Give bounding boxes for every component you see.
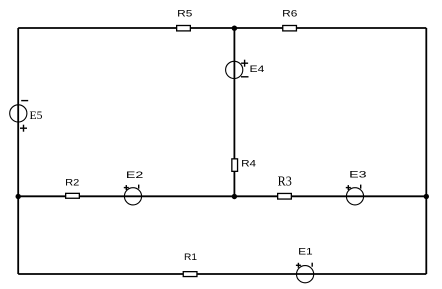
svg-text:R4: R4: [241, 159, 256, 170]
svg-text:R5: R5: [177, 9, 192, 20]
wire bottom: [18, 273, 426, 275]
resistor R2: [65, 178, 79, 199]
svg-text:R1: R1: [184, 252, 197, 263]
resistor R5: [177, 9, 193, 31]
wire middle horizontal: [18, 195, 426, 197]
source E4: [226, 60, 265, 79]
resistor R4: [232, 159, 256, 172]
wire left: [17, 28, 19, 274]
svg-text:E4: E4: [250, 64, 265, 75]
wire right: [425, 28, 427, 274]
svg-text:E1: E1: [298, 246, 313, 257]
source E3: [346, 170, 367, 205]
source E1: [296, 246, 314, 282]
source E5: [10, 101, 43, 132]
svg-text:E2: E2: [126, 170, 143, 181]
resistor R6: [282, 9, 297, 31]
source E2: [124, 170, 144, 205]
svg-text:E3: E3: [349, 170, 366, 181]
wire middle vertical: [233, 28, 235, 196]
svg-text:R6: R6: [282, 9, 297, 20]
wire top: [18, 27, 426, 29]
node junction right: [424, 194, 429, 199]
node junction top: [232, 26, 237, 31]
node junction left: [16, 194, 21, 199]
resistor R1: [183, 252, 197, 277]
svg-text:R3: R3: [278, 175, 292, 190]
resistor R3: [278, 175, 292, 200]
svg-text:E5: E5: [30, 108, 43, 122]
svg-text:R2: R2: [65, 178, 79, 189]
node junction center: [232, 194, 237, 199]
